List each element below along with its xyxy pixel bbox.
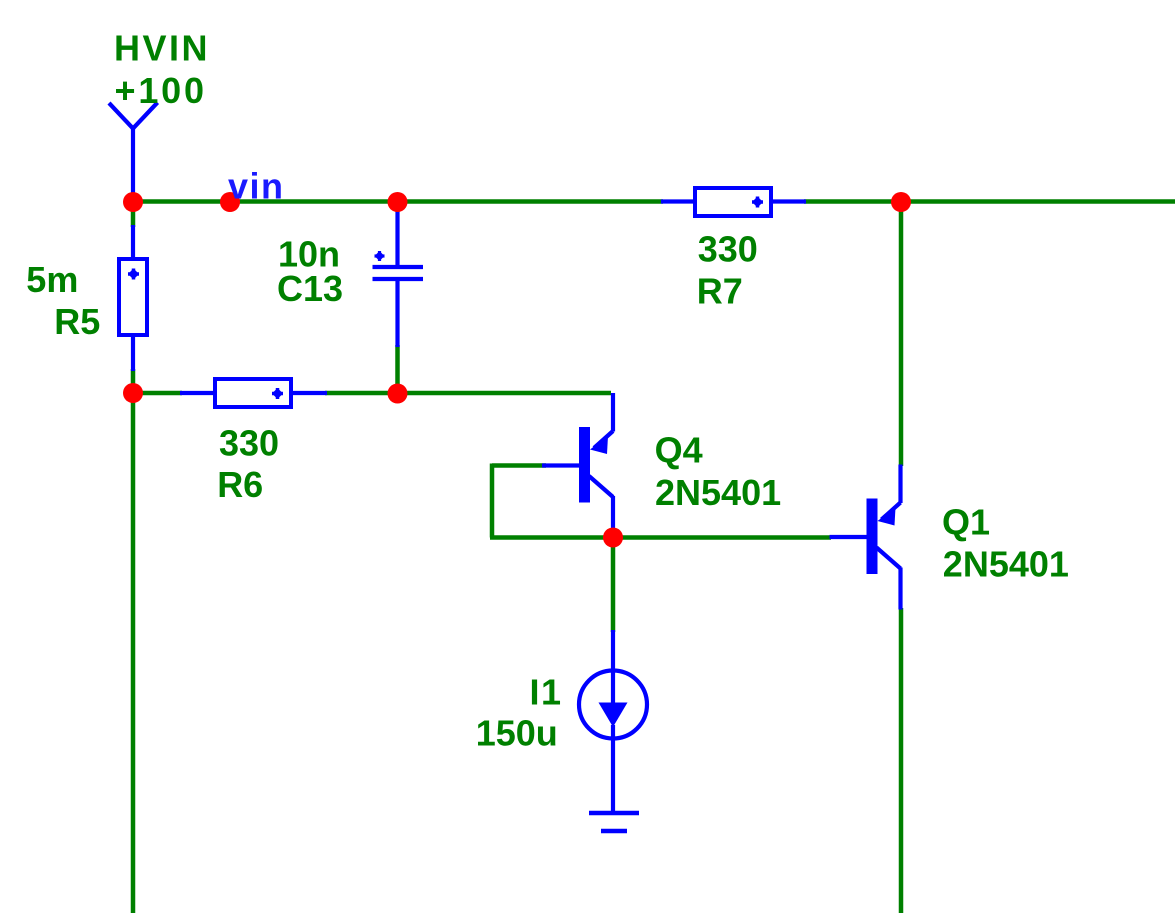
junction dot HVIN/vin xyxy=(123,192,143,212)
svg-text:150u: 150u xyxy=(476,713,558,754)
svg-text:Q4: Q4 xyxy=(655,430,703,471)
svg-text:R6: R6 xyxy=(217,464,263,505)
wire R5 to left rail xyxy=(131,369,136,913)
wire mirror node row xyxy=(490,535,831,540)
junction dot mirror node xyxy=(603,528,623,548)
wire Q1 collector rail xyxy=(899,608,904,913)
wire Q4 base left xyxy=(492,463,546,468)
svg-text:Q1: Q1 xyxy=(942,502,990,543)
wire Q4 feedback vertical xyxy=(490,464,495,538)
svg-text:330: 330 xyxy=(698,229,758,270)
junction dot R5 bottom xyxy=(123,383,143,403)
svg-text:330: 330 xyxy=(219,423,279,464)
ground xyxy=(589,813,639,831)
wire node to I1 xyxy=(611,538,616,633)
resistor R6 xyxy=(180,379,327,407)
svg-text:HVIN: HVIN xyxy=(114,28,210,69)
svg-text:I1: I1 xyxy=(530,672,563,713)
svg-text:R7: R7 xyxy=(697,270,743,311)
svg-text:5m: 5m xyxy=(26,259,78,300)
svg-text:C13: C13 xyxy=(277,268,343,309)
resistor R5 xyxy=(119,225,147,371)
wire C13 bottom xyxy=(395,345,400,395)
svg-text:2N5401: 2N5401 xyxy=(655,472,781,513)
power flag HVIN xyxy=(109,103,158,203)
wire R7 node to Q1 emitter xyxy=(899,202,904,466)
wire HVIN node to R5 xyxy=(131,202,136,227)
current source I1 xyxy=(579,630,647,813)
capacitor C13 xyxy=(373,202,424,347)
junction dot R7 right xyxy=(891,192,911,212)
wire node to R6 xyxy=(133,391,182,396)
wire vin top horizontal right xyxy=(804,199,1175,204)
svg-text:2N5401: 2N5401 xyxy=(943,544,1069,585)
wire vin top horizontal left xyxy=(133,199,663,204)
transistor Q4 xyxy=(542,393,613,538)
junction dot R6 right node xyxy=(388,384,408,404)
junction dot C13 top xyxy=(388,192,408,212)
junction dot vin label xyxy=(220,192,240,212)
wire R6 to Q4 emitter row xyxy=(325,391,611,396)
svg-text:vin: vin xyxy=(228,166,285,207)
resistor R7 xyxy=(661,188,806,216)
transistor Q1 xyxy=(830,465,901,610)
svg-text:R5: R5 xyxy=(54,301,100,342)
svg-text:+100: +100 xyxy=(115,70,207,111)
